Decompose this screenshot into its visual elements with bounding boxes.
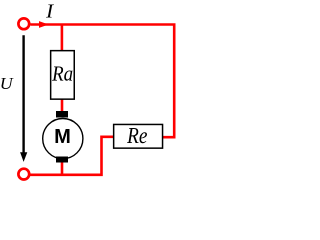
label Re <box>127 128 147 143</box>
terminal (bottom-left) <box>18 169 29 180</box>
motor M (stator circle) <box>43 119 83 159</box>
voltage arrow U (shaft) <box>22 35 24 154</box>
wire: bottom horizontal, up at x101.5, into Re left <box>30 137 115 175</box>
resistor Re <box>114 124 163 148</box>
resistor Ra <box>51 51 75 100</box>
label M <box>56 129 70 143</box>
current arrow on top wire <box>39 21 49 28</box>
wire: motor bottom brush to bottom wire <box>61 162 64 175</box>
label I <box>46 5 54 18</box>
label U <box>1 78 13 89</box>
wire: top horizontal, right vertical, stub to Re right <box>31 25 175 138</box>
motor brush (bottom) <box>56 157 68 163</box>
motor brush (top) <box>56 111 68 118</box>
voltage arrow U (head) <box>20 152 27 162</box>
wire: Ra bottom to motor top brush <box>61 99 64 113</box>
terminal (top-left) <box>18 18 29 29</box>
wire: junction drop from top wire to Ra <box>61 25 64 52</box>
label Ra <box>52 67 72 81</box>
